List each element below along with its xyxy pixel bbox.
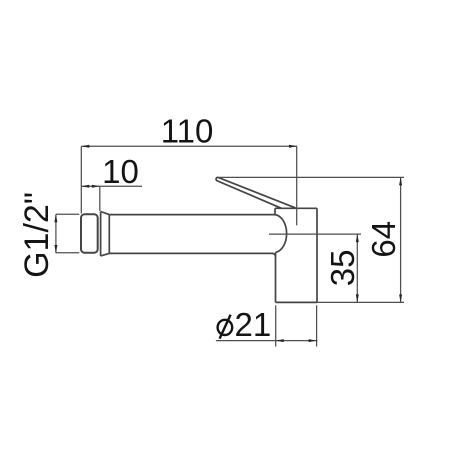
dim phi21 left extension line [275,305,277,346]
axis extension line (for 35) [269,233,361,235]
dim 110 line [81,145,297,147]
dim phi21 line [216,340,318,342]
arrow 110 right [289,145,297,148]
tube bottom line with inner fillet [109,253,275,256]
arrow G1/2 bottom [54,245,57,253]
elbow body left edge [275,252,277,302]
bottom extension line (for 35 and 64) [317,301,404,303]
dim 10 line [81,185,142,187]
dim phi21 right extension line [316,305,318,346]
tube top line [109,214,275,216]
arrow G1/2 top [54,214,57,222]
svg-text:35: 35 [324,250,361,287]
dim G1/2 line [55,214,57,253]
svg-text:21: 21 [235,306,272,343]
arrow 35 bottom [356,294,359,302]
flare left edge [100,212,102,256]
dim 10 right extension line [99,186,101,211]
arrow 64 bottom [399,294,402,302]
arrow 35 top [356,234,359,242]
nut (threaded fitting hex nut) [81,214,98,252]
top extension line (for 64) [219,176,404,178]
arrow 10 right [92,185,100,188]
dim G1/2 bottom extension line [56,252,79,254]
elbow body bottom [276,301,318,303]
arrow phi21 right [309,339,317,342]
handle blade [216,177,295,208]
flare top slant [101,212,110,215]
dim 64 line [400,177,402,302]
elbow body right edge [316,208,318,302]
dim G1/2 top extension line [56,213,79,215]
label diameter symbol of 21 [218,315,233,339]
arrow 64 top [399,177,402,185]
svg-text:110: 110 [161,113,214,150]
dim 110 right extension line [296,146,298,225]
elbow body top-left step [274,208,276,214]
dim 35 line [356,234,358,302]
dim 110 left extension line [80,146,82,213]
tube end cap arc [275,215,287,253]
svg-text:G1/2": G1/2" [18,192,56,278]
arrow 110 left [81,145,89,148]
svg-text:64: 64 [365,221,402,258]
flare bottom slant [101,253,110,256]
arrow phi21 left [276,339,284,342]
arrow 10 left [81,185,89,188]
flare right edge [108,215,110,254]
elbow body top face [275,207,317,209]
svg-text:10: 10 [102,153,139,190]
